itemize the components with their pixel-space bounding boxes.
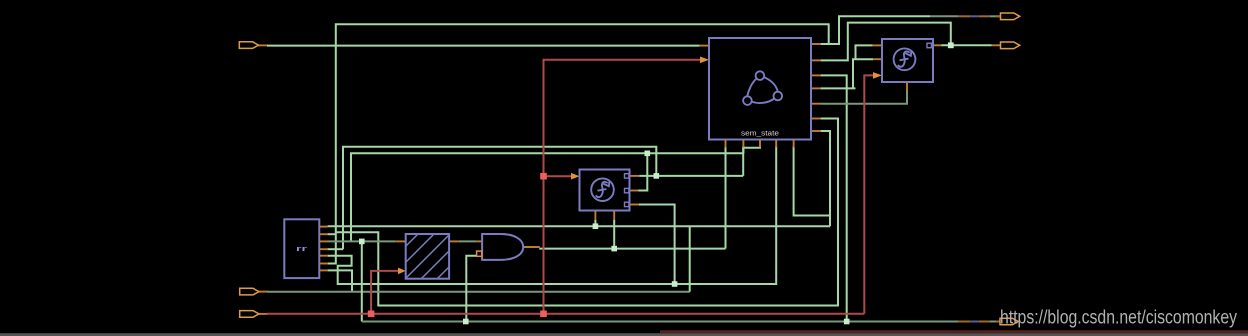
flip-flop U2 (FF1) bbox=[580, 170, 630, 211]
wire red branch x=864.3 up to FF2 reset arrow bbox=[864, 75, 873, 313]
wire net line y=284 from rr pin M5 dogleg east to U1 bottom pin B4 bbox=[328, 146, 777, 284]
wire net U1 pin R4 to FF2 inputs D (staircase x=853/855.5) bbox=[811, 45, 882, 88]
output port X (OP1) bbox=[1001, 13, 1020, 20]
input port A (IP1) bbox=[239, 42, 258, 49]
wire net line y=146.8 from x=343 to FF1.Q junction bbox=[343, 147, 656, 249]
wire net reset (red) main line y=313.8 from IP3 bbox=[256, 313, 864, 315]
svg-text:rr: rr bbox=[296, 244, 307, 253]
input port C (IP3 reset) bbox=[240, 311, 259, 318]
U6 input2 pin marker bbox=[477, 251, 482, 256]
arrowhead into U1 bbox=[700, 57, 709, 64]
U3 output pin square bbox=[927, 43, 932, 48]
bottom maroon line bbox=[660, 330, 1248, 333]
arrowhead into FF2 bbox=[873, 72, 882, 79]
U3 clock icon bbox=[894, 48, 916, 70]
wire net IP2 clock line y=291.7 and riser x=689.7 bbox=[256, 226, 689, 292]
AND gate U6 bbox=[482, 234, 523, 260]
svg-text:https://blog.csdn.net/ciscomon: https://blog.csdn.net/ciscomonkey bbox=[1000, 308, 1237, 329]
wire net AND gate output stub bbox=[523, 246, 540, 248]
wire net clock trunk y=226.2 from rr pin M1 to x=830 bbox=[328, 225, 831, 227]
junction FF2.Q node bbox=[948, 42, 954, 48]
output port Z (OP3 bottom) bbox=[1000, 318, 1018, 325]
wire rr pin M4 row bbox=[328, 248, 344, 250]
wire net rr pin M3 row (sage) to hatched ROM input, with south branch x=361.8 bbox=[328, 241, 406, 321]
output port Y (OP2) bbox=[1001, 42, 1020, 49]
wire net U1 bottom pin B5 dogleg to clock riser bbox=[794, 146, 830, 216]
wire net U1 pin R7 down x=830 to clock trunk bbox=[811, 131, 830, 226]
U2 clock icon bbox=[591, 178, 614, 201]
wire rr pin M7 dogleg to clock line bbox=[328, 270, 353, 291]
wire net FF1 bottom stubs to clock trunk and CE line bbox=[595, 211, 614, 249]
wire net U1 pin R6 down x=838 to line y=305.5 and to rr area riser x=378.3 bbox=[336, 119, 838, 306]
wire net ROM output to AND gate input1 bbox=[449, 240, 482, 242]
wire net FF1 pin1 output line y=175.9 bbox=[630, 175, 744, 177]
arrowhead into FF1 bbox=[571, 173, 580, 180]
wire net U1 pin R3 long vertical x=846.7 down to bottom bus bbox=[811, 75, 847, 321]
wire net U1 bottom pin B1 down to line y=248.6 (AND output net) bbox=[539, 146, 725, 249]
arrowhead into ROM bbox=[398, 268, 406, 275]
wire net sage bottom bus y=321.5 to output port OP3 bbox=[362, 321, 1001, 323]
wire red branch x=543.5 to FF1 and U1 bbox=[544, 60, 701, 314]
flip-flop U3 (FF2) bbox=[882, 39, 933, 82]
bottom gray strip bbox=[0, 333, 1248, 336]
junction dots (green) bbox=[359, 151, 850, 325]
U1 bottom pin stubs B1-B5 bbox=[726, 140, 794, 148]
wire net FF2.Q feedback to U1 pin R2 (y=22.6) and to output port OP2 bbox=[811, 23, 1001, 61]
wire net FF1 pin3 output down x=674.6 to line y=284 bbox=[630, 205, 675, 285]
wire net IP1 to U1 (data input line y=45.6) bbox=[258, 44, 709, 46]
svg-text:sem_state: sem_state bbox=[741, 128, 779, 137]
wire red branch to ROM input2 (x=371.1) bbox=[371, 271, 399, 314]
junction dots (red) bbox=[368, 173, 547, 317]
FSM block U1 sem_state bbox=[709, 38, 811, 140]
wire net FF1 pin2 output riser x=647.3 bbox=[630, 153, 648, 190]
U4 right pin stubs M1-M7 bbox=[319, 227, 328, 271]
input port B (IP2 clock) bbox=[240, 288, 259, 295]
U2 output pin squares bbox=[625, 174, 629, 207]
wire net R1 to output port OP1 (y=16.3) bbox=[811, 16, 1001, 44]
wire net U1 bottom pins B2+B3 to line y=153.3 west to rr pin M3 riser bbox=[351, 146, 760, 241]
wire net AND gate input2 riser x=466.3 from sage bus bbox=[466, 256, 476, 322]
wire net R1-branch long top line (y=24.2) with vertical V1 down to rr pin M6 bbox=[328, 24, 829, 263]
U1 FSM icon (three states) bbox=[743, 71, 782, 105]
wire net U1 pin R5 sage clock line y=103.7 to FF2 bottom pin bbox=[811, 82, 907, 104]
block U4 rr bbox=[284, 219, 319, 278]
